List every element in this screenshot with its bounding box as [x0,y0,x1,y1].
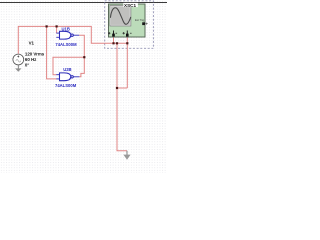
U2B input pin A [56,74,59,76]
V1 polarity plus [17,56,19,58]
U2B output bubble [71,76,73,78]
U2B body [60,73,71,81]
svg-text:74ALS00M: 74ALS00M [55,83,77,88]
XSC1 ext trig plus mark [146,23,148,25]
AC source V1 body [13,54,24,65]
wire V1 top to feed corner [18,26,127,53]
oscilloscope XSC1 [108,4,148,37]
XSC1 reference label [123,3,138,8]
U1B output bubble [71,34,73,36]
svg-text:U1B: U1B [62,26,70,31]
U1B input pin B [56,36,59,38]
wire B to long drop [117,87,127,89]
U2B output pin [73,76,79,78]
wire drop to U2B lower input [47,26,57,79]
svg-text:V1: V1 [29,41,35,46]
wire scope A drop [113,37,115,44]
svg-text:0°: 0° [25,63,29,68]
junction on feed wire at U2B drop [46,25,48,27]
sheet top border [0,2,167,4]
svg-text:U2B: U2B [63,67,71,72]
NAND gate U2B [56,73,79,81]
junction scope A wire [112,42,114,44]
V1 sine symbol [16,60,21,63]
wire drop to U1B upper input [56,26,58,33]
ground bottom right [123,151,130,160]
XSC1 ext trig pin [142,22,145,25]
XSC1 channel B pin [126,31,129,37]
junction ground drop top [116,42,118,44]
XSC1 body [109,4,146,37]
NAND gate U1B [56,31,79,39]
XSC1 channel polarity marks [108,32,132,34]
grid background [0,0,167,173]
svg-text:Ext Trig: Ext Trig [135,18,145,22]
U1B input pin A [56,32,59,34]
svg-text:60 Hz: 60 Hz [25,57,37,62]
wire scope B drop [126,37,128,89]
U1B body [60,31,71,39]
XSC1 screen [111,7,130,25]
wire U1B output loop [79,35,84,77]
U2B input pin B [56,78,59,80]
wire mid rail to U2B upper input [53,57,84,74]
junction U1B output rail [83,56,85,58]
U1B output pin [73,34,79,36]
svg-text:120 Vrms: 120 Vrms [25,52,45,57]
XSC1 screen sine trace [110,8,130,25]
svg-text:74ALS00M: 74ALS00M [55,42,77,47]
XSC1 screen frame [110,5,131,26]
junction on feed wire at U1B drop [56,25,58,27]
junction scope B wire [126,42,128,44]
junction ground drop at B link [116,87,118,89]
svg-text:XSC1: XSC1 [124,3,136,8]
wire long drop to ground [117,43,127,151]
V1 reference and value labels [25,41,45,68]
XSC1 channel A pin [112,31,115,37]
ground under V1 [15,65,21,72]
selection box around XSC1 (dashed) [105,1,154,49]
